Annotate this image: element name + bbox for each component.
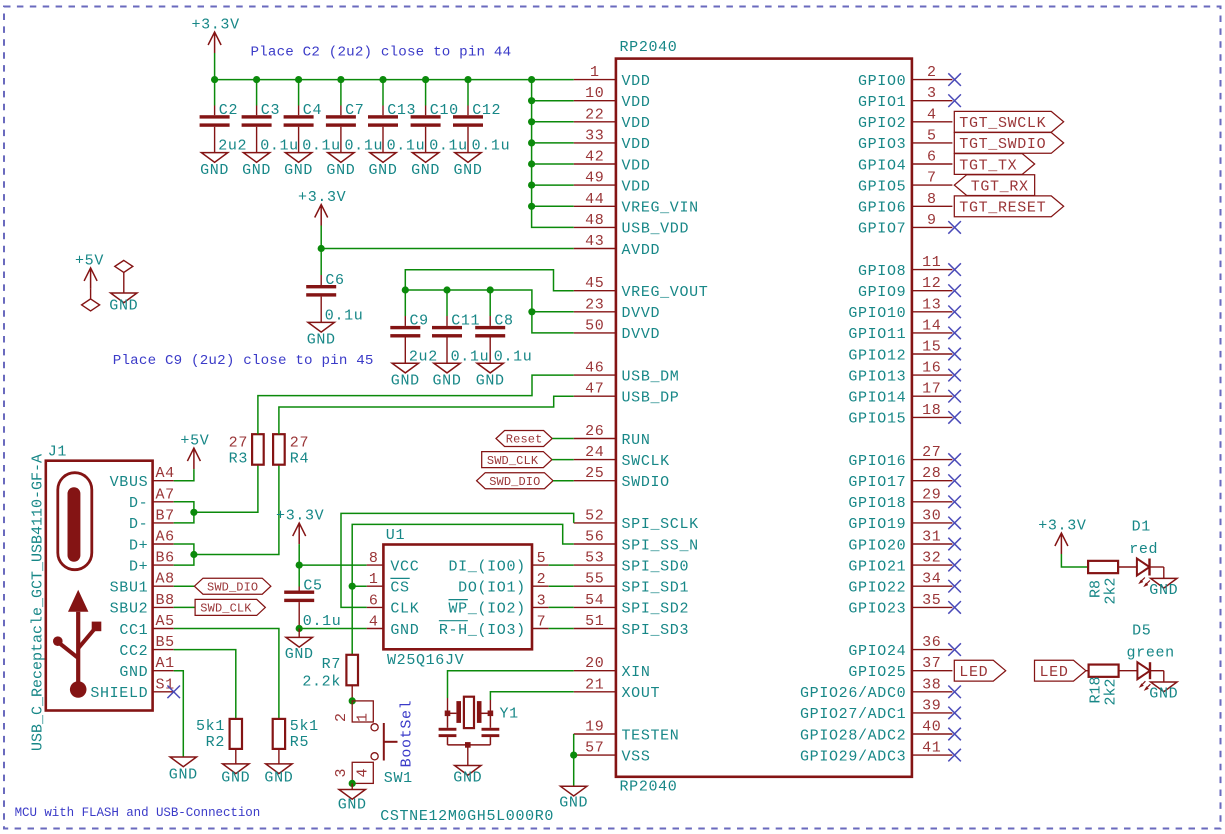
junction	[528, 160, 535, 167]
pin 39 GPIO27/ADC1 (right)	[912, 712, 953, 714]
svg-text:MCU with FLASH and USB-Connect: MCU with FLASH and USB-Connection	[15, 806, 261, 820]
capacitor C13 0.1u	[382, 80, 384, 106]
svg-text:A5: A5	[156, 613, 175, 630]
svg-text:TESTEN: TESTEN	[622, 727, 680, 744]
svg-text:5k1: 5k1	[290, 718, 319, 735]
svg-text:3: 3	[927, 85, 937, 102]
svg-text:SWDIO: SWDIO	[622, 474, 670, 491]
resistor R5 5k1	[273, 719, 285, 749]
pin A4 VBUS (J1)	[153, 480, 174, 482]
svg-text:6: 6	[927, 149, 937, 166]
wire D- pair	[174, 502, 194, 523]
svg-text:34: 34	[922, 571, 941, 588]
svg-text:VDD: VDD	[622, 94, 651, 111]
svg-text:GPIO7: GPIO7	[858, 221, 906, 238]
svg-text:GND: GND	[119, 664, 148, 681]
svg-text:31: 31	[922, 529, 941, 546]
svg-text:VREG_VIN: VREG_VIN	[622, 200, 699, 217]
pin 19 TESTEN (left)	[574, 733, 616, 735]
no-connect X pin 41	[948, 749, 961, 762]
svg-text:SPI_SD0: SPI_SD0	[622, 558, 690, 575]
wire VDD stub	[532, 205, 574, 207]
ground under C11	[434, 363, 460, 373]
svg-text:W25Q16JV: W25Q16JV	[387, 652, 464, 669]
capacitor C6 0.1u	[320, 249, 322, 276]
svg-text:GND: GND	[200, 162, 229, 179]
capacitor C4 0.1u	[298, 80, 300, 106]
svg-text:GPIO21: GPIO21	[848, 558, 906, 575]
svg-text:Place C9 (2u2) close to pin 45: Place C9 (2u2) close to pin 45	[113, 353, 374, 369]
junction	[464, 76, 471, 83]
svg-text:2: 2	[537, 571, 547, 588]
svg-text:C6: C6	[325, 272, 344, 289]
svg-text:SWD_DIO: SWD_DIO	[489, 475, 540, 489]
pin 43 AVDD (left)	[574, 248, 616, 250]
net flag TGT_SWCLK	[954, 111, 1063, 132]
svg-text:LED: LED	[1040, 664, 1069, 681]
svg-text:GPIO16: GPIO16	[848, 453, 906, 470]
no-connect X pin 30	[948, 517, 961, 530]
svg-text:D1: D1	[1132, 518, 1151, 535]
svg-text:GPIO8: GPIO8	[858, 263, 906, 280]
svg-text:33: 33	[585, 127, 604, 144]
net flag TGT_RX	[954, 175, 1034, 196]
svg-text:4: 4	[927, 106, 937, 123]
no-connect X pin 27	[948, 453, 961, 466]
svg-text:GPIO19: GPIO19	[848, 516, 906, 533]
svg-text:17: 17	[922, 381, 941, 398]
pin 31 GPIO20 (right)	[912, 543, 953, 545]
svg-text:VSS: VSS	[622, 748, 651, 765]
wire +3.3V to U1 VCC	[299, 544, 367, 565]
switch SW1 BootSel	[352, 701, 373, 722]
pin 16 GPIO13 (right)	[912, 374, 953, 376]
svg-text:USB_DM: USB_DM	[622, 368, 680, 385]
svg-text:GND: GND	[326, 162, 355, 179]
svg-text:XOUT: XOUT	[622, 685, 661, 702]
svg-text:1: 1	[369, 571, 379, 588]
resistor R18 2k2	[1089, 665, 1119, 677]
pin 23 DVVD (left)	[574, 311, 616, 313]
LED D1 red	[1137, 559, 1150, 576]
junction	[295, 76, 302, 83]
pin 8 VCC (U1 left)	[367, 564, 384, 566]
svg-text:GND: GND	[169, 767, 198, 784]
net flag SWD_CLK	[482, 452, 552, 468]
svg-text:5: 5	[537, 550, 547, 567]
pin 7 GPIO5 (right)	[912, 184, 953, 186]
pin 26 RUN (left)	[574, 438, 616, 440]
pin B8 SBU2 (J1)	[153, 606, 174, 608]
wire VBUS to +5V	[174, 469, 194, 481]
svg-text:GND: GND	[307, 332, 336, 349]
svg-text:18: 18	[922, 402, 941, 419]
pin 14 GPIO11 (right)	[912, 332, 953, 334]
svg-text:50: 50	[585, 317, 604, 334]
no-connect X pin 14	[948, 327, 961, 340]
svg-text:C8: C8	[494, 313, 513, 330]
svg-text:R4: R4	[290, 450, 309, 467]
svg-text:GPIO27/ADC1: GPIO27/ADC1	[800, 706, 906, 723]
svg-text:Reset: Reset	[506, 433, 543, 447]
svg-text:1: 1	[590, 64, 600, 81]
pin 50 DVVD (left)	[574, 332, 616, 334]
pin 30 GPIO19 (right)	[912, 522, 953, 524]
pin 47 USB_DP (left)	[574, 395, 616, 397]
svg-text:GND: GND	[476, 372, 505, 389]
no-connect X pin 39	[948, 707, 961, 720]
svg-text:SWD_DIO: SWD_DIO	[207, 580, 258, 594]
svg-text:VDD: VDD	[622, 73, 651, 90]
svg-text:GND: GND	[1149, 582, 1178, 599]
junction	[528, 182, 535, 189]
svg-text:R5: R5	[290, 734, 309, 751]
no-connect X pin 13	[948, 306, 961, 319]
pin 40 GPIO28/ADC2 (right)	[912, 733, 953, 735]
svg-text:green: green	[1127, 644, 1175, 661]
svg-text:D+: D+	[129, 537, 148, 554]
ground under C5	[286, 637, 312, 647]
no-connect X pin 28	[948, 474, 961, 487]
junction CS node	[349, 583, 356, 590]
svg-text:GND: GND	[433, 372, 462, 389]
ground under C13	[370, 153, 396, 163]
ground under D1	[1151, 578, 1177, 588]
pin 44 VREG_VIN (left)	[574, 205, 616, 207]
ground under C2	[201, 153, 227, 163]
svg-text:9: 9	[927, 212, 937, 229]
ground under R2	[223, 764, 249, 774]
svg-text:54: 54	[585, 592, 604, 609]
svg-text:GPIO9: GPIO9	[858, 284, 906, 301]
wire CC1 to R5	[174, 629, 279, 719]
wire TESTEN to VSS	[573, 734, 575, 755]
pin 57 VSS (left)	[574, 754, 616, 756]
svg-text:CS: CS	[390, 580, 409, 597]
svg-text:52: 52	[585, 507, 604, 524]
junction	[296, 562, 303, 569]
svg-text:CSTNE12M0GH5L000R0: CSTNE12M0GH5L000R0	[380, 808, 554, 825]
svg-text:25: 25	[585, 465, 604, 482]
svg-text:SPI_SD2: SPI_SD2	[622, 601, 690, 618]
svg-text:12: 12	[922, 275, 941, 292]
pin 3 GPIO1 (right)	[912, 100, 953, 102]
svg-text:SBU2: SBU2	[110, 601, 149, 618]
svg-text:GPIO2: GPIO2	[858, 115, 906, 132]
svg-text:+5V: +5V	[75, 252, 104, 269]
svg-text:C12: C12	[472, 102, 501, 119]
pin 55 SPI_SD1 (left)	[574, 585, 616, 587]
pin 34 GPIO22 (right)	[912, 585, 953, 587]
pin 51 SPI_SD3 (left)	[574, 628, 616, 630]
pin 53 SPI_SD0 (left)	[574, 564, 616, 566]
wire GND pin A1	[174, 671, 184, 757]
wire SPI data R-H_(IO3)	[549, 628, 574, 630]
svg-text:GPIO29/ADC3: GPIO29/ADC3	[800, 748, 906, 765]
ground under D5	[1151, 682, 1177, 692]
pin 22 VDD (left)	[574, 121, 616, 123]
svg-text:4: 4	[369, 614, 379, 631]
svg-text:DVVD: DVVD	[622, 326, 661, 343]
net flag LED	[954, 660, 1005, 681]
pin 52 SPI_SCLK (left)	[574, 522, 616, 524]
ground under VSS	[561, 786, 587, 796]
svg-text:41: 41	[922, 740, 941, 757]
svg-text:16: 16	[922, 360, 941, 377]
no-connect X pin 16	[948, 369, 961, 382]
wire VDD bus vertical	[532, 80, 574, 228]
wire SPI data DI_(IO0)	[549, 564, 574, 566]
svg-text:+5V: +5V	[180, 433, 209, 450]
svg-text:R3: R3	[229, 450, 248, 467]
svg-text:C5: C5	[303, 577, 322, 594]
pin 46 USB_DM (left)	[574, 374, 616, 376]
svg-text:15: 15	[922, 339, 941, 356]
svg-text:+3.3V: +3.3V	[298, 189, 346, 206]
no-connect X pin 31	[948, 538, 961, 551]
wire VSS to ground	[573, 755, 575, 786]
svg-text:TGT_TX: TGT_TX	[959, 157, 1017, 174]
svg-text:A7: A7	[156, 486, 175, 503]
junction	[487, 286, 494, 293]
svg-text:A1: A1	[156, 655, 175, 672]
svg-text:C3: C3	[261, 102, 280, 119]
svg-text:27: 27	[229, 434, 248, 451]
pin A6 D+ (J1)	[153, 543, 174, 545]
svg-text:13: 13	[922, 296, 941, 313]
svg-text:TGT_RX: TGT_RX	[971, 178, 1029, 195]
pin 4 GPIO2 (right)	[912, 121, 953, 123]
wire XIN to Y1	[448, 671, 574, 698]
svg-text:27: 27	[290, 434, 309, 451]
svg-text:TGT_SWDIO: TGT_SWDIO	[959, 136, 1046, 153]
svg-text:55: 55	[585, 571, 604, 588]
svg-text:GPIO6: GPIO6	[858, 200, 906, 217]
wire SPI data DO(IO1)	[549, 585, 574, 587]
svg-text:C7: C7	[345, 102, 364, 119]
svg-text:GND: GND	[284, 162, 313, 179]
wire CC2 to R2	[174, 650, 236, 719]
junction	[570, 752, 577, 759]
svg-text:VREG_VOUT: VREG_VOUT	[622, 284, 709, 301]
svg-text:4: 4	[355, 768, 372, 777]
junction	[528, 118, 535, 125]
no-connect X pin 40	[948, 728, 961, 741]
wire VDD stub	[532, 121, 574, 123]
net flag TGT_TX	[954, 154, 1034, 175]
svg-text:CLK: CLK	[390, 601, 419, 618]
crystal Y1 CSTNE resonator	[464, 697, 474, 728]
svg-text:2k2: 2k2	[1103, 577, 1120, 604]
svg-text:A4: A4	[156, 465, 175, 482]
svg-text:+3.3V: +3.3V	[1038, 518, 1086, 535]
svg-text:C2: C2	[219, 102, 238, 119]
pin 18 GPIO15 (right)	[912, 416, 953, 418]
pin 3 WP_(IO2) (U1 right)	[532, 606, 549, 608]
svg-text:GND: GND	[454, 162, 483, 179]
net flag TGT_RESET	[954, 196, 1063, 217]
wire D- to R3	[194, 465, 258, 513]
capacitor C5 0.1u	[298, 565, 300, 586]
no-connect X pin 15	[948, 348, 961, 361]
svg-text:RUN: RUN	[622, 432, 651, 449]
pin 5 GPIO3 (right)	[912, 142, 953, 144]
svg-text:35: 35	[922, 592, 941, 609]
junction	[211, 76, 218, 83]
USB-C receptacle glyph	[58, 473, 92, 570]
svg-text:GPIO28/ADC2: GPIO28/ADC2	[800, 727, 906, 744]
pin 20 XIN (left)	[574, 670, 616, 672]
svg-text:GND: GND	[369, 162, 398, 179]
svg-text:USB_C_Receptacle_GCT_USB4110-G: USB_C_Receptacle_GCT_USB4110-GF-A	[30, 454, 47, 751]
junction SW1 gnd	[349, 780, 356, 787]
wire R3 to USB_DM pin 46	[258, 375, 574, 434]
pin 42 VDD (left)	[574, 163, 616, 165]
wire SPI_SS_N to U1 CS	[352, 524, 574, 586]
pin 2 GPIO0 (right)	[912, 79, 953, 81]
svg-text:SWD_CLK: SWD_CLK	[200, 602, 252, 616]
no-connect X pin 11	[948, 263, 961, 276]
svg-text:37: 37	[922, 655, 941, 672]
wire SPI_SCLK to U1 CLK	[341, 513, 574, 607]
svg-text:GND: GND	[109, 298, 138, 315]
pin 27 GPIO16 (right)	[912, 459, 953, 461]
svg-text:8: 8	[369, 550, 379, 567]
svg-text:7: 7	[927, 170, 937, 187]
svg-text:36: 36	[922, 634, 941, 651]
no-connect X pin 35	[948, 601, 961, 614]
capacitor C9 2u2	[404, 290, 406, 316]
ground under C3	[243, 153, 269, 163]
junction	[190, 551, 197, 558]
pin 24 SWCLK (left)	[574, 459, 616, 461]
svg-text:38: 38	[922, 676, 941, 693]
junction	[337, 76, 344, 83]
pin 32 GPIO21 (right)	[912, 564, 953, 566]
pin 21 XOUT (left)	[574, 691, 616, 693]
svg-text:10: 10	[585, 85, 604, 102]
svg-text:USB_DP: USB_DP	[622, 390, 680, 407]
pin 10 VDD (left)	[574, 100, 616, 102]
pin 33 VDD (left)	[574, 142, 616, 144]
pin 7 R-H_(IO3) (U1 right)	[532, 628, 549, 630]
svg-text:GPIO20: GPIO20	[848, 537, 906, 554]
svg-text:49: 49	[585, 170, 604, 187]
svg-text:GPIO24: GPIO24	[848, 643, 906, 660]
capacitor C12 0.1u	[467, 80, 469, 106]
svg-text:GND: GND	[221, 770, 250, 787]
svg-text:1: 1	[355, 713, 372, 722]
net flag TGT_SWDIO	[954, 133, 1063, 154]
wire VDD stub	[532, 163, 574, 165]
resistor R2 5k1	[230, 719, 242, 749]
no-connect X pin 18	[948, 411, 961, 424]
svg-text:D-: D-	[129, 495, 148, 512]
pin 25 SWDIO (left)	[574, 480, 616, 482]
svg-text:SBU1: SBU1	[110, 580, 149, 597]
op-amp/mcu RP2040 body	[616, 59, 912, 777]
resistor R4 27	[273, 434, 285, 465]
pin 36 GPIO24 (right)	[912, 649, 953, 651]
svg-text:GND: GND	[411, 162, 440, 179]
pin 28 GPIO17 (right)	[912, 480, 953, 482]
svg-text:DVVD: DVVD	[622, 305, 661, 322]
junction	[528, 139, 535, 146]
svg-text:53: 53	[585, 550, 604, 567]
svg-text:+3.3V: +3.3V	[276, 508, 324, 525]
junction	[402, 286, 409, 293]
pin 49 VDD (left)	[574, 184, 616, 186]
ground under Y1	[455, 766, 481, 776]
svg-text:GND: GND	[242, 162, 271, 179]
svg-text:RP2040: RP2040	[620, 39, 678, 56]
svg-text:VCC: VCC	[390, 558, 419, 575]
no-connect X pin 3	[948, 94, 961, 107]
svg-text:J1: J1	[48, 444, 67, 461]
junction	[379, 76, 386, 83]
wire +3.3V to AVDD pin 43	[321, 226, 574, 249]
ground under R5	[266, 764, 292, 774]
svg-text:GPIO26/ADC0: GPIO26/ADC0	[800, 685, 906, 702]
wire D+ to R4	[194, 465, 279, 555]
svg-text:22: 22	[585, 106, 604, 123]
svg-text:DI_(IO0): DI_(IO0)	[449, 558, 526, 575]
wire D+ pair	[174, 544, 194, 565]
pin 37 GPIO25 (right)	[912, 670, 953, 672]
ground under A1	[170, 757, 196, 767]
wire VDD stub	[532, 100, 574, 102]
pin 29 GPIO18 (right)	[912, 501, 953, 503]
svg-text:XIN: XIN	[622, 664, 651, 681]
svg-text:48: 48	[585, 212, 604, 229]
ground under C4	[285, 153, 311, 163]
svg-text:44: 44	[585, 191, 604, 208]
no-connect X pin 38	[948, 686, 961, 699]
svg-text:GPIO15: GPIO15	[848, 411, 906, 428]
svg-text:57: 57	[585, 740, 604, 757]
net flag SWD_CLK (J1)	[174, 606, 195, 608]
capacitor C3 0.1u	[256, 80, 258, 106]
ground under C10	[412, 153, 438, 163]
svg-text:39: 39	[922, 697, 941, 714]
pin 38 GPIO26/ADC0 (right)	[912, 691, 953, 693]
pin 1 VDD (left)	[574, 79, 616, 81]
svg-text:GPIO10: GPIO10	[848, 305, 906, 322]
svg-text:GPIO4: GPIO4	[858, 157, 906, 174]
svg-text:GPIO17: GPIO17	[848, 474, 906, 491]
svg-text:3: 3	[537, 592, 547, 609]
pin B7 D- (J1)	[153, 522, 174, 524]
svg-text:SPI_SS_N: SPI_SS_N	[622, 537, 699, 554]
pin 12 GPIO9 (right)	[912, 290, 953, 292]
svg-text:GPIO1: GPIO1	[858, 94, 906, 111]
wire +3.3V rail to pin 1	[215, 53, 574, 80]
no-connect X pin S1	[167, 686, 180, 699]
pin 2 DO(IO1) (U1 right)	[532, 585, 549, 587]
svg-text:GND: GND	[264, 770, 293, 787]
capacitor C10 0.1u	[425, 80, 427, 106]
ground under C6	[308, 322, 334, 332]
svg-text:27: 27	[922, 444, 941, 461]
svg-text:CC2: CC2	[119, 643, 148, 660]
pin 6 CLK (U1 left)	[367, 606, 384, 608]
svg-text:SHIELD: SHIELD	[90, 685, 148, 702]
svg-text:23: 23	[585, 296, 604, 313]
pin 35 GPIO23 (right)	[912, 606, 953, 608]
svg-text:C9: C9	[410, 313, 429, 330]
no-connect X pin 34	[948, 580, 961, 593]
svg-text:56: 56	[585, 529, 604, 546]
